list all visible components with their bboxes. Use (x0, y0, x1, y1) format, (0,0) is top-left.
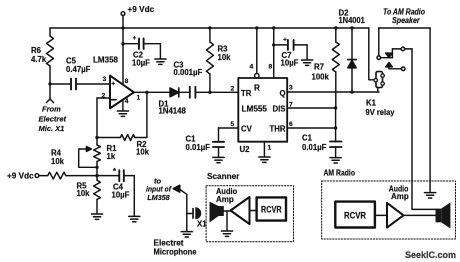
svg-text:9V relay: 9V relay (366, 108, 396, 117)
ground scanner amp (221, 231, 232, 236)
svg-text:Microphone: Microphone (154, 248, 197, 257)
svg-text:10k: 10k (51, 157, 65, 166)
resistor R1 pot (79, 138, 101, 176)
svg-text:10µF: 10µF (112, 191, 130, 200)
wire DIS pin7 (287, 107, 335, 109)
wire THR pin6 (287, 127, 335, 129)
ground pin1 (259, 157, 270, 162)
capacitor C7 (274, 40, 307, 60)
capacitor C1 right (330, 142, 342, 158)
microphone X1 (187, 207, 201, 219)
svg-text:+: + (133, 35, 137, 42)
wire rcvr to amp (375, 214, 387, 216)
svg-text:Amp: Amp (391, 192, 409, 201)
wire pin4 (256, 28, 258, 74)
svg-text:0.01µF: 0.01µF (302, 143, 327, 152)
svg-text:Amp: Amp (216, 195, 234, 204)
svg-text:1: 1 (137, 95, 141, 102)
wire pin5 CV to C1 (219, 128, 239, 142)
svg-text:THR: THR (270, 125, 286, 134)
wire top +9V rail (50, 27, 369, 29)
node +9Vdc terminal (121, 12, 125, 16)
resistor R4 (39, 172, 97, 179)
op-amp U1 LM555 chip body U2 (238, 78, 287, 142)
ground C1 left (213, 157, 224, 162)
diode D2 (348, 28, 357, 92)
svg-text:+: + (111, 81, 115, 88)
svg-text:From: From (42, 105, 61, 114)
svg-text:2: 2 (102, 93, 106, 100)
svg-text:3: 3 (289, 85, 293, 92)
relay switch common (377, 28, 430, 192)
svg-text:6: 6 (289, 121, 293, 128)
svg-text:3: 3 (103, 76, 107, 83)
capacitor C1 left (213, 142, 224, 157)
wire DIS-THR junction (335, 108, 337, 141)
svg-text:10µF: 10µF (132, 59, 150, 68)
resistor R6 (47, 28, 54, 84)
svg-text:R6: R6 (31, 46, 42, 55)
node mic input stub (46, 84, 53, 103)
ground C2 (155, 59, 166, 64)
svg-text:5: 5 (231, 121, 235, 128)
ground R5 (91, 214, 102, 219)
wire pin1 (263, 142, 265, 157)
svg-text:C1: C1 (302, 134, 313, 143)
wire pin8 (273, 28, 275, 78)
ground C4 (129, 216, 140, 221)
op-amp minus sign (111, 99, 116, 101)
relay contact NO (386, 63, 405, 71)
resistor R5 (94, 176, 101, 214)
AM audio amp triangle (387, 203, 404, 228)
svg-text:Mic. X1: Mic. X1 (39, 124, 65, 133)
wire feedback loop R2 (97, 92, 147, 140)
wire op-amp output (134, 91, 170, 93)
wire op-amp pin2 feedback (97, 98, 110, 138)
ground op-amp (117, 111, 128, 116)
svg-text:2: 2 (231, 86, 235, 93)
svg-text:0.47µF: 0.47µF (66, 65, 91, 74)
svg-text:K1: K1 (366, 99, 377, 108)
svg-text:LM358: LM358 (93, 56, 118, 65)
svg-text:100k: 100k (312, 73, 330, 82)
diode D1 (170, 88, 190, 97)
svg-text:R: R (254, 84, 260, 93)
svg-text:4.7k: 4.7k (31, 55, 47, 64)
wire amp to speaker (404, 214, 436, 216)
AM speaker (436, 202, 451, 228)
wire op-amp pin4 to ground (122, 100, 124, 111)
resistor R3 (206, 28, 213, 92)
svg-text:0.01µF: 0.01µF (186, 143, 211, 152)
svg-text:AM Radio: AM Radio (324, 169, 356, 178)
ground C1 right (330, 158, 341, 163)
svg-text:+9 Vdc: +9 Vdc (7, 172, 34, 181)
svg-text:10µF: 10µF (281, 59, 299, 68)
resistor R7 (332, 28, 339, 108)
svg-text:Speaker: Speaker (392, 16, 420, 25)
svg-text:SeekIC.com: SeekIC.com (405, 250, 456, 261)
svg-text:Scanner: Scanner (207, 172, 240, 181)
relay contact NC (381, 47, 436, 209)
svg-text:0.001µF: 0.001µF (174, 68, 203, 77)
capacitor C2 (123, 38, 160, 58)
svg-text:CV: CV (241, 125, 253, 134)
AM RCVR box (335, 202, 375, 228)
scanner audio amp triangle (231, 197, 250, 224)
svg-text:8: 8 (269, 64, 273, 71)
svg-text:X1: X1 (197, 220, 207, 229)
svg-text:DIS: DIS (273, 105, 286, 114)
svg-text:Electret: Electret (154, 239, 184, 248)
svg-text:1k: 1k (107, 152, 116, 161)
Scanner dashed box (206, 186, 293, 242)
node +9Vdc lower terminal (35, 174, 39, 178)
op-amp U1 triangle (110, 76, 134, 109)
scanner RCVR box (257, 197, 286, 220)
ground AM radio top (425, 193, 436, 198)
node reset bubble pin4 (255, 74, 259, 78)
svg-text:RCVR: RCVR (261, 205, 282, 216)
svg-text:U2: U2 (240, 145, 251, 154)
svg-text:1N4148: 1N4148 (159, 107, 187, 116)
svg-text:LM358: LM358 (147, 193, 169, 202)
svg-text:LM555: LM555 (242, 105, 268, 114)
svg-text:1N4001: 1N4001 (339, 16, 366, 25)
svg-text:+9 Vdc: +9 Vdc (128, 5, 155, 14)
svg-text:+: + (283, 37, 287, 44)
wire mic arrow to input (173, 185, 187, 231)
svg-text:4: 4 (250, 64, 254, 71)
svg-text:1: 1 (268, 145, 272, 152)
svg-text:Q: Q (280, 89, 286, 98)
wire amp to rcvr (250, 210, 257, 212)
scanner speaker (210, 202, 224, 223)
capacitor C3 (190, 87, 239, 98)
wire rail to relay coil (369, 28, 376, 80)
ground mic (181, 232, 192, 237)
svg-text:7: 7 (289, 102, 293, 109)
AM Radio dashed box (322, 181, 456, 239)
svg-text:10k: 10k (136, 148, 150, 157)
svg-text:Electret: Electret (39, 115, 67, 124)
svg-text:4: 4 (125, 98, 129, 105)
ground C7 (302, 60, 313, 65)
svg-text:R7: R7 (314, 63, 324, 72)
svg-text:10k: 10k (218, 53, 232, 62)
svg-text:TR: TR (241, 89, 252, 98)
wire scanner amp ground (226, 211, 228, 231)
svg-text:RCVR: RCVR (344, 211, 366, 222)
capacitor C5 (50, 79, 110, 90)
capacitor C4 (97, 170, 134, 216)
svg-text:8: 8 (125, 78, 129, 85)
relay K1 coil (374, 72, 384, 92)
wire Q pin3 line (287, 91, 379, 93)
svg-text:10k: 10k (77, 189, 91, 198)
